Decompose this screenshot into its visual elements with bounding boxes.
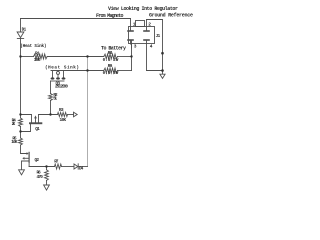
node SCR anode [86,69,88,71]
node R6 tap [45,165,47,167]
wire SCR anode bar [51,70,88,72]
svg-text:0.5 2W: 0.5 2W [103,58,119,63]
wire R9 to right rail corner [118,70,132,72]
node ground rail mid [161,52,164,55]
resistor R2 [49,94,53,101]
node Q1 row tap [19,113,21,115]
wire Q1 row right segment [39,115,58,123]
svg-text:2SC2500: 2SC2500 [55,85,68,90]
wire R2 to gate row [50,101,52,115]
wire R6 to ground [46,180,48,185]
diode D4 [74,164,78,169]
wire R1 row left [21,56,34,58]
transistor Q2 [22,152,30,170]
node arrow (gate) [74,112,78,117]
SCR Q3 pin stubs [51,71,66,80]
svg-text:J1: J1 [156,34,161,39]
svg-text:4: 4 [150,44,153,50]
svg-text:10K: 10K [34,58,41,63]
svg-text:470: 470 [37,175,44,180]
node gate junction [49,113,51,115]
svg-text:R3: R3 [59,108,64,113]
svg-text:View Looking Into Regulator: View Looking Into Regulator [108,6,178,12]
wire R7 to D4 [62,166,75,168]
junction dots [19,52,164,168]
wire rail to Q2 [21,145,27,154]
svg-text:10K: 10K [60,118,67,123]
svg-text:R7: R7 [54,160,59,165]
svg-text:(Heat Sink): (Heat Sink) [20,44,46,49]
SCR mounting bar [51,80,65,82]
resistor R4 [19,118,23,127]
wire bridge pin2 to ground drop [147,20,163,71]
svg-text:D1: D1 [22,28,27,33]
resistor R9 [104,68,118,73]
wire vertical mid node (faint) [87,57,89,167]
svg-text:1: 1 [133,22,136,28]
resistor R7 [55,164,62,169]
wire right rail (To Battery) [131,41,133,71]
wire R8 to right rail [118,56,132,58]
node main/mid vertical [86,55,88,57]
node R1 tap [19,55,21,57]
node right rail R8 [130,55,132,57]
ground Q2 emitter [19,170,25,175]
wire bottom row [29,166,54,168]
connector pin 3 [128,40,133,48]
svg-text:Q2: Q2 [35,158,40,163]
resistor R3 [58,112,68,116]
ground R6 [44,185,50,190]
ground J1 [160,74,165,78]
wire R6 stem [46,167,48,170]
svg-text:2: 2 [148,22,151,28]
connector pin 1 [128,19,133,32]
connector J1 body [129,27,155,44]
wire D4 to corner [78,166,87,168]
diode D1 [17,32,24,57]
wire R3 to arrow [68,114,74,116]
wire rail below R4 [20,127,22,139]
wire node to R8 [88,56,104,58]
svg-text:0.5 2W: 0.5 2W [103,71,119,76]
wire left rail middle [20,57,22,119]
resistor R8 [104,54,118,59]
svg-text:D4: D4 [79,166,84,171]
svg-text:From Magneto: From Magneto [96,13,124,19]
svg-text:Ground Reference: Ground Reference [149,12,193,18]
svg-text:R1: R1 [35,51,40,56]
wire pin4 to ground rail [147,70,163,72]
node ground rail bottom [161,69,164,72]
resistor R1 [34,54,48,59]
svg-text:R8: R8 [108,51,113,56]
svg-text:To Battery: To Battery [101,46,126,52]
svg-text:2K: 2K [12,122,16,127]
resistor R5 [19,138,23,145]
wire main top horizontal [21,18,131,20]
svg-text:(Heat Sink): (Heat Sink) [45,65,79,70]
svg-text:Q1: Q1 [35,127,40,132]
connector pin 4 [144,40,149,71]
resistor R6 [45,170,49,181]
wire left rail top [20,19,22,33]
wire Q1 row left [21,115,32,123]
wire ground stem J1 [162,71,164,75]
svg-text:R9: R9 [108,64,113,69]
svg-text:10K: 10K [11,140,18,145]
wire SCR cathode down [50,81,52,94]
wire node to R9 [88,70,104,72]
wire R1 to node [47,56,87,58]
connector J1 key tab [136,21,145,27]
svg-text:51: 51 [53,97,57,102]
transistor Q1 [21,115,43,131]
node Q1 base tap [19,130,21,132]
svg-text:3: 3 [134,44,137,50]
connector pin 2 [144,20,149,32]
